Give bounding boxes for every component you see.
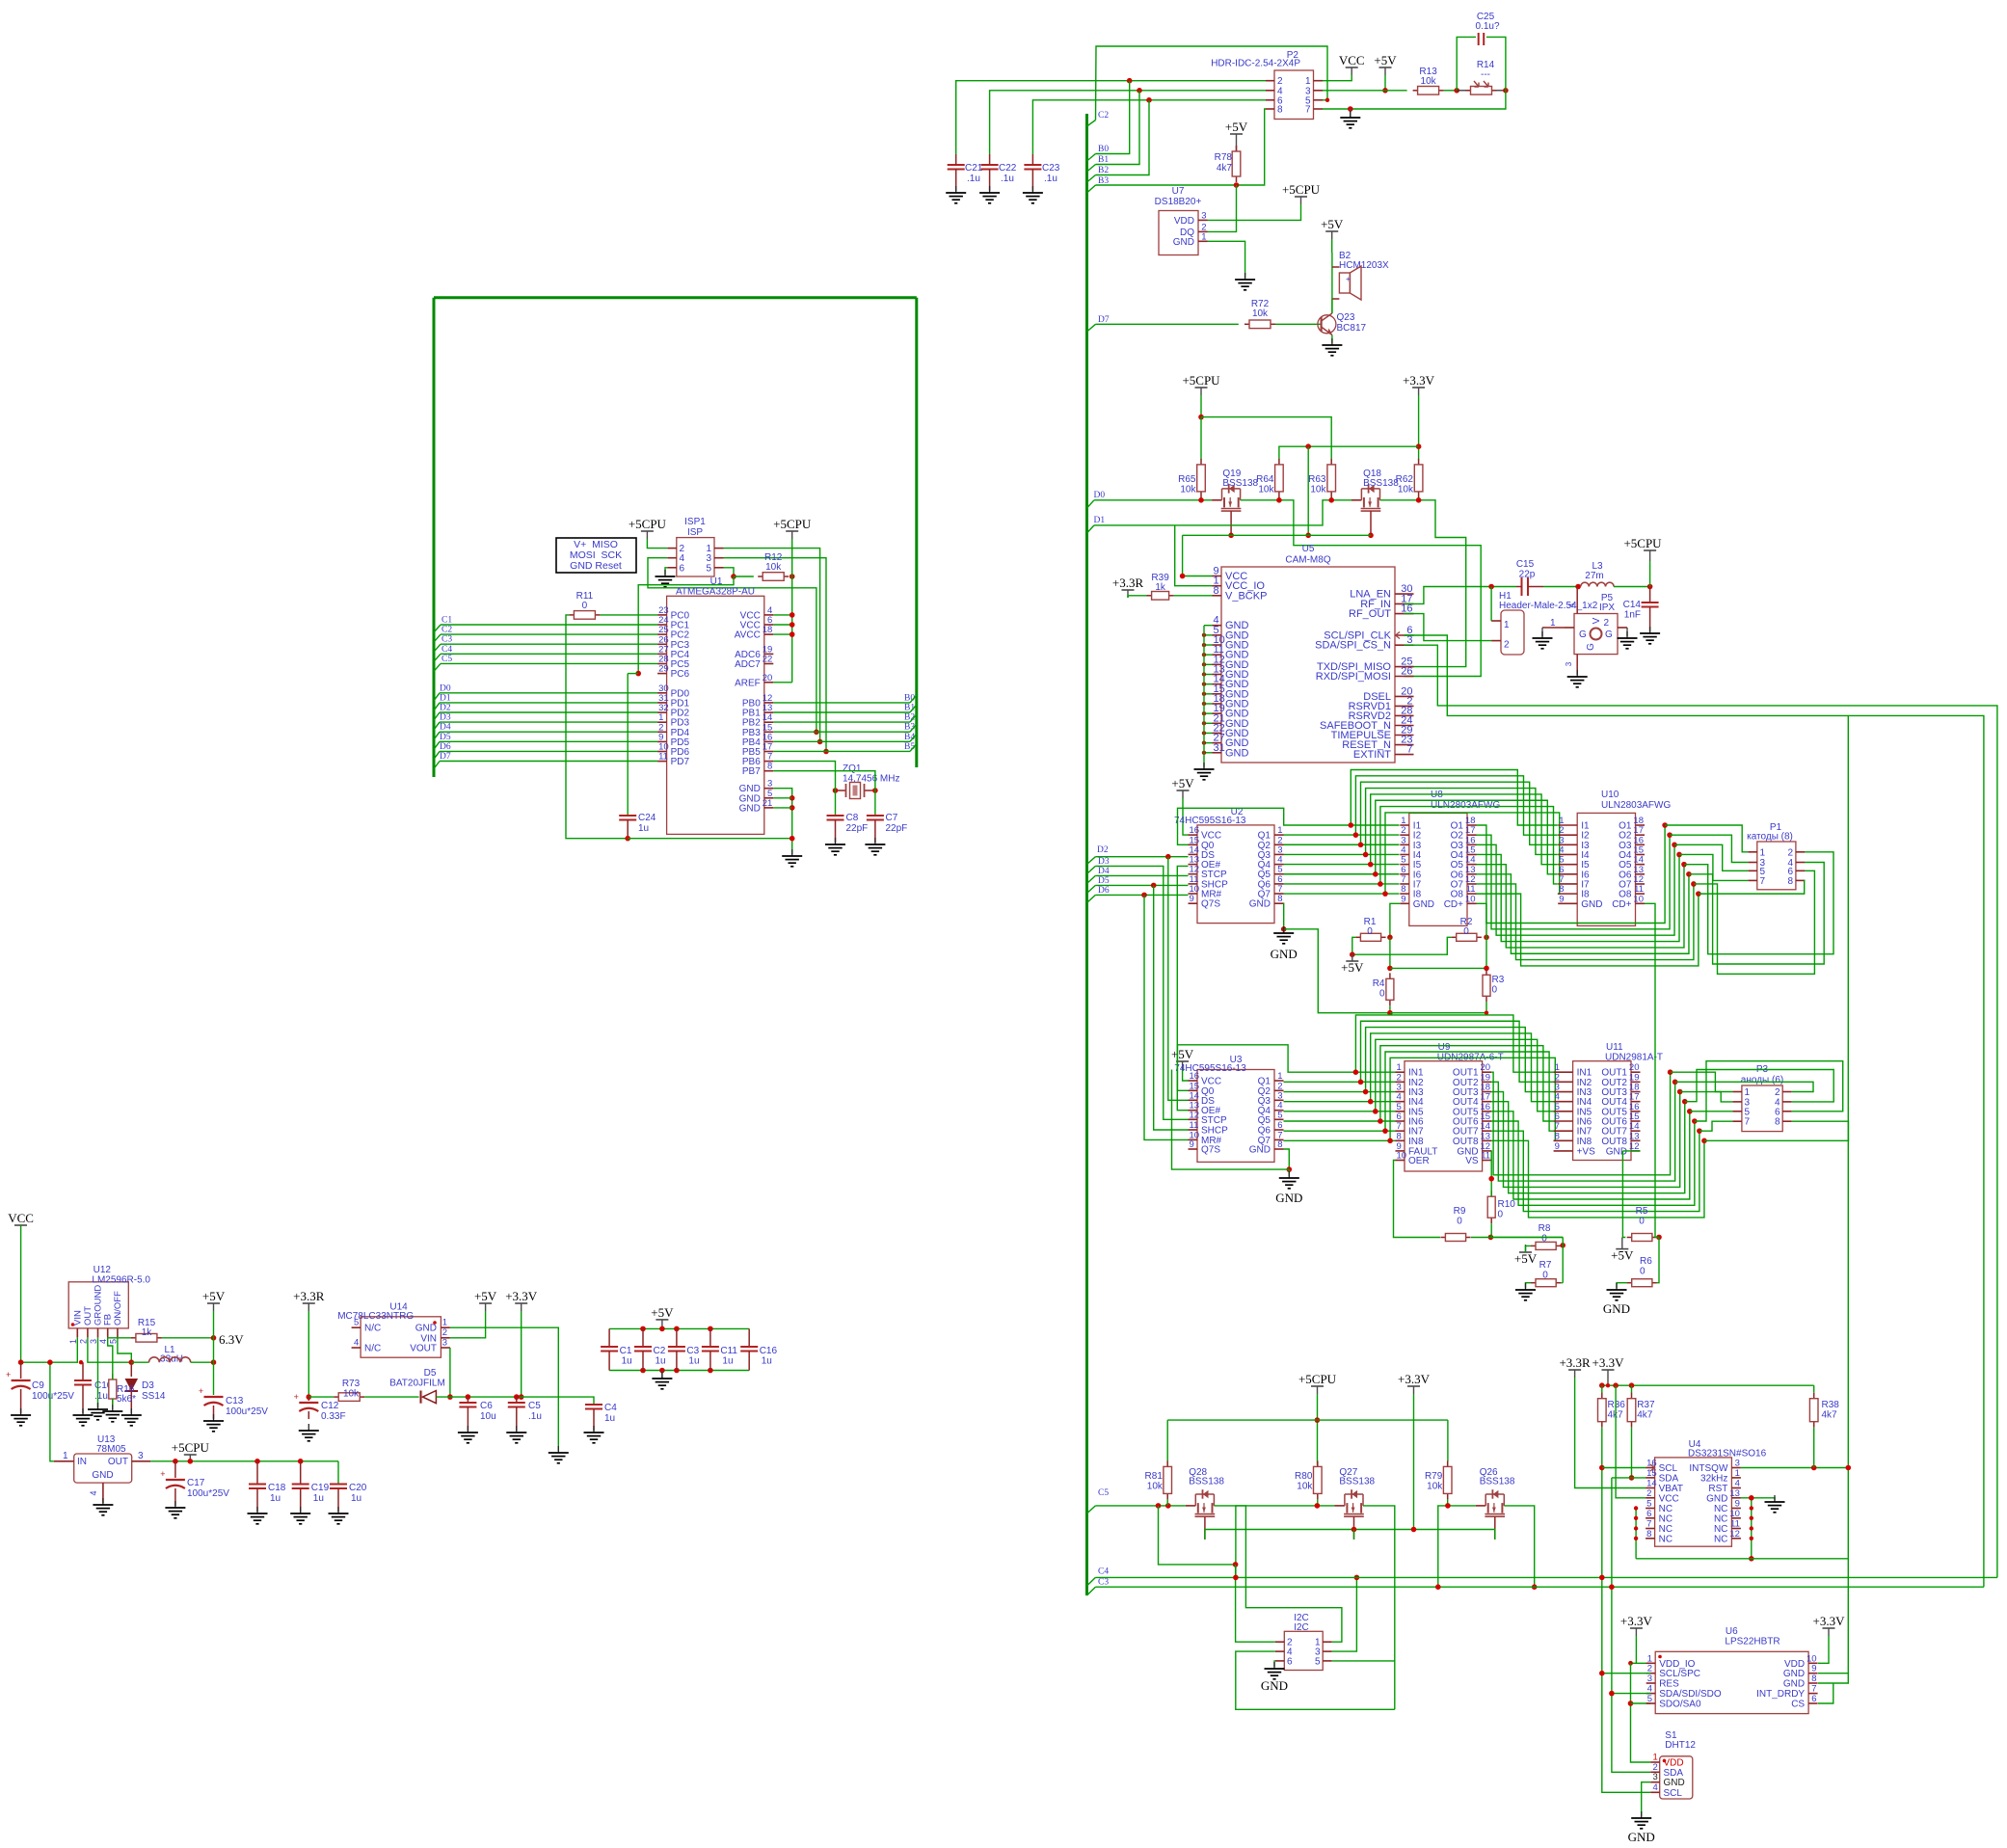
wire Q5 to U10 I6 (over the top) (1376, 800, 1558, 874)
wire R13 to C25 left leg (1444, 90, 1458, 92)
U5 pin 26 RXD/SPI_MOSI (1395, 676, 1414, 678)
svg-text:CD+: CD+ (1444, 899, 1463, 910)
svg-text:10k: 10k (1421, 76, 1437, 87)
wire U7 VDD to +5CPU (1208, 204, 1301, 220)
wire D5 to U2 SHCP and down to U3 (1095, 884, 1188, 886)
U4 NC tie right (1751, 1498, 1753, 1559)
wire C1 to U1 PC1 (441, 624, 657, 626)
ground below C17 (174, 1501, 176, 1508)
U10 pin 17 O2 (1636, 834, 1646, 836)
svg-text:2: 2 (78, 1339, 88, 1344)
bus (MCU block loop: right vertical) (915, 298, 918, 767)
svg-text:U6: U6 (1726, 1626, 1738, 1637)
U2 pin 3 Q3 (1274, 853, 1284, 855)
wire to U11 IN2 (over the top) (1361, 1021, 1554, 1082)
svg-text:CS: CS (1791, 1700, 1805, 1710)
wire U9 OUT1 tie to U11 OUT1 (1491, 1072, 1671, 1175)
svg-text:U5: U5 (1302, 544, 1315, 554)
wire B1 drop (1096, 91, 1140, 165)
U10 pin 8 I8 (1558, 893, 1577, 895)
svg-text:N/C: N/C (364, 1344, 381, 1354)
U10 pin 9 GND (1558, 902, 1577, 904)
wire I2C pin3 to C4 row (1332, 1577, 1357, 1651)
svg-text:6: 6 (1287, 1656, 1293, 1667)
capacitor C19 1u (300, 1461, 302, 1485)
U3 pin 13 OE# (1189, 1110, 1198, 1111)
svg-text:C7: C7 (886, 813, 898, 823)
svg-text:VDD: VDD (1174, 216, 1194, 227)
junction C14 node (1647, 584, 1653, 590)
bus (MCU data/control bus, right vertical) (1085, 114, 1088, 1595)
svg-text:GND: GND (1603, 1301, 1630, 1316)
svg-text:3: 3 (1647, 1674, 1652, 1684)
U5 pin 2 RSRVD1 (1395, 705, 1414, 707)
S1 pin 3 GND (1650, 1781, 1660, 1783)
wire PB4 to B4 (773, 740, 910, 742)
svg-text:6: 6 (680, 563, 685, 574)
wire B2 drop (1096, 100, 1150, 175)
svg-text:10: 10 (1465, 894, 1476, 904)
svg-text:6: 6 (1277, 1120, 1282, 1131)
U14 pin 3 VOUT (441, 1347, 450, 1349)
transistor Q23 BC817 (NPN) (1320, 317, 1322, 332)
U10 pin 15 O4 (1636, 853, 1646, 855)
svg-text:8: 8 (1277, 894, 1282, 904)
junction U9 IN5 (1373, 1109, 1378, 1114)
svg-text:OUT: OUT (83, 1306, 94, 1326)
svg-text:+: + (1346, 275, 1351, 283)
svg-text:1: 1 (68, 1339, 78, 1344)
svg-text:5: 5 (1647, 1694, 1652, 1704)
svg-text:4: 4 (1567, 603, 1576, 607)
svg-text:BSS138: BSS138 (1339, 1477, 1375, 1487)
wire R11 to PC0 (600, 614, 657, 616)
IC U11 UDN2981A-T (1573, 1061, 1631, 1161)
svg-text:+5CPU: +5CPU (172, 1440, 210, 1455)
U3 pin 15 Q0 (1189, 1089, 1198, 1091)
svg-text:+5V: +5V (1225, 120, 1248, 134)
junction B1 tap on pin4 row (1137, 88, 1142, 94)
svg-text:C21: C21 (965, 163, 983, 174)
svg-text:D3: D3 (440, 713, 451, 723)
wire R12 left to ISP pin5 node (734, 576, 754, 577)
wire U12 ON/OFF to ground (118, 1337, 131, 1362)
svg-text:26: 26 (1401, 666, 1412, 678)
wire U10 CD+ down to R5 right (1645, 903, 1659, 1237)
U1 pin 9 PD5 (657, 740, 667, 742)
U5 pin 20 DSEL (1395, 695, 1414, 697)
U11 pin 17 OUT4 (1631, 1101, 1641, 1103)
wire NC rail corner down to U6 GND pins (1818, 1559, 1848, 1674)
resistor R81 10k (1166, 1460, 1168, 1466)
vertical right run (INTSQW column) (1847, 715, 1849, 1558)
svg-text:GND Reset: GND Reset (570, 560, 622, 572)
svg-text:C5: C5 (1098, 1488, 1109, 1498)
wire +3.3V down to 3.3V rail (521, 1311, 522, 1397)
U9 pin 6 IN6 (1396, 1120, 1405, 1122)
P1 pin 1 (1748, 851, 1757, 853)
U7 pin 3 VDD (1198, 219, 1208, 221)
U5 pin 9 VCC (1213, 576, 1222, 577)
svg-text:LM2596R-5.0: LM2596R-5.0 (92, 1275, 150, 1286)
svg-text:14: 14 (1190, 1090, 1200, 1101)
svg-text:D2: D2 (1097, 845, 1109, 855)
svg-text:10: 10 (1729, 1509, 1740, 1519)
wire S1 GND to ground (1642, 1782, 1651, 1816)
header I2C (1284, 1631, 1323, 1670)
wire R1 left to +5V rail (1352, 937, 1452, 954)
wire +3.3V down to gate rail (1413, 1394, 1415, 1530)
svg-text:IN8: IN8 (1408, 1137, 1424, 1147)
junction +5V on pin3 row (1382, 88, 1388, 94)
wire to U11 IN8 (over the top) (1390, 1058, 1555, 1140)
U3 pin 9 Q7S (1189, 1148, 1198, 1150)
junction U11 OUT1 (1668, 1069, 1673, 1075)
wire P2 pin4 row to C22 (990, 91, 1266, 154)
svg-text:13: 13 (1481, 1131, 1491, 1141)
P5 pin 3 to ground (1576, 655, 1578, 675)
wire VCC pin6 to +5CPU drop (773, 624, 791, 626)
svg-text:10k: 10k (765, 562, 782, 573)
U3 pin 7 Q7 (1274, 1138, 1284, 1140)
svg-text:R81: R81 (1145, 1471, 1164, 1482)
wire PB6 to crystal left (773, 762, 835, 790)
svg-text:7: 7 (1760, 876, 1766, 887)
svg-text:12: 12 (1729, 1529, 1740, 1540)
wire C3 row (long) (1095, 1586, 1983, 1588)
wire D1 to U1 PD1 (440, 702, 657, 704)
resistor R79 10k (1447, 1460, 1449, 1466)
wire +3.3R to U4 VBAT (1575, 1378, 1646, 1488)
P1 pin 3 (1748, 862, 1757, 864)
wire +5CPU to R65 top (1200, 417, 1202, 460)
U10 pin 11 O8 (1636, 893, 1646, 895)
resistor R65 10k (1200, 459, 1202, 465)
svg-text:C24: C24 (638, 813, 656, 823)
svg-text:BSS138: BSS138 (1363, 478, 1399, 489)
svg-text:+: + (6, 1370, 11, 1379)
svg-text:22p: 22p (1519, 570, 1536, 580)
svg-text:3: 3 (138, 1451, 144, 1461)
U10 pin 3 I3 (1558, 844, 1577, 845)
U3 pin 12 STCP (1189, 1118, 1198, 1120)
wire U10 O4 to P1 pin7 (1679, 854, 1748, 880)
svg-text:+5V: +5V (1341, 960, 1364, 975)
capacitor C22 .1u (981, 164, 999, 166)
wire R4 top rail (1389, 937, 1391, 968)
U10 pin 18 O1 (1636, 824, 1646, 826)
svg-text:HDR-IDC-2.54-2X4P: HDR-IDC-2.54-2X4P (1211, 59, 1300, 69)
junction U9 IN1 (1353, 1069, 1359, 1075)
U11 pin 19 OUT2 (1631, 1081, 1641, 1083)
U5 pin 3 SDA/SPI_CS_N (1395, 644, 1414, 646)
P1 pin 5 (1748, 870, 1757, 871)
svg-text:GND: GND (415, 1324, 437, 1334)
wire C2 net: bus entry up to top run, across to P2 pin5 (1096, 46, 1328, 121)
svg-text:C5: C5 (442, 655, 452, 664)
svg-text:1nF: 1nF (1624, 610, 1641, 621)
U9 pin 2 IN2 (1396, 1081, 1405, 1083)
capacitor C13 100u*25V (204, 1396, 224, 1398)
U2 pin 6 Q6 (1274, 883, 1284, 885)
junction R2 right / CD+ drop (1484, 935, 1489, 941)
capacitor C4 1u (3.3V rail) (591, 1397, 594, 1405)
svg-text:1: 1 (1735, 1468, 1740, 1479)
resistor R7 0 (1531, 1282, 1536, 1284)
junction U8 I4 (1363, 852, 1369, 858)
svg-text:SCL: SCL (1664, 1788, 1683, 1799)
svg-text:VOUT: VOUT (410, 1344, 437, 1354)
junction MOSI/PB3 (814, 730, 819, 736)
wire +5CPU output rail (150, 1460, 338, 1462)
junction U8 I7 (1378, 881, 1383, 887)
svg-text:7: 7 (1811, 1684, 1816, 1695)
junction U9 IN3 (1363, 1089, 1369, 1095)
svg-text:D5: D5 (424, 1368, 437, 1379)
IC U9 UDN2987A-6-T (1405, 1061, 1483, 1171)
junction U11 OUT4 (1682, 1099, 1688, 1105)
svg-text:D6: D6 (440, 742, 451, 752)
P3 pin 1 (1732, 1091, 1742, 1093)
svg-text:R5: R5 (1636, 1206, 1648, 1217)
wire U4 SDA row to SDA column (1612, 1477, 1646, 1479)
svg-text:CAM-M8Q: CAM-M8Q (1285, 555, 1330, 566)
U9 pin 14 OUT7 (1483, 1130, 1492, 1132)
junction U10 O5 (1681, 862, 1687, 868)
wire Q1 to U10 I2 (over the top) (1355, 776, 1557, 835)
wire U3 GND to ground (1284, 1149, 1290, 1169)
U8 pin 3 I3 (1400, 844, 1409, 845)
wire AVCC to +5CPU drop (773, 633, 791, 635)
IC S1 DHT12 (1660, 1756, 1693, 1799)
svg-text:GND: GND (1606, 1146, 1627, 1157)
IC U7 DS18B20+ (1159, 211, 1198, 255)
U8 pin 4 I4 (1400, 853, 1409, 855)
ground at ISP1 pin6 (665, 568, 667, 575)
capacitor C8 22pF (835, 790, 837, 816)
U1 pin 31 PD1 (657, 702, 667, 704)
U3 pin 6 Q6 (1274, 1129, 1284, 1131)
U4 NC tie left (1635, 1509, 1637, 1559)
U13 pin 1 IN (54, 1460, 74, 1462)
transistor Q19 BSS138 (1212, 499, 1221, 501)
photoresistor R14 (1466, 90, 1471, 92)
U1 pin 30 PD0 (657, 692, 667, 694)
wire U11 OUT7 to P3 pin7 (1699, 1121, 1733, 1131)
svg-text:1: 1 (1201, 231, 1206, 242)
wire P2 pin3 row to R13 (1323, 90, 1407, 92)
svg-text:16: 16 (1646, 1459, 1657, 1469)
I2C pin 6 (1275, 1660, 1285, 1662)
U1 pin 28 PC5 (657, 663, 667, 665)
wire +5V to U3 VCC (1183, 1069, 1189, 1081)
junction R12 right at +5CPU drop (789, 574, 795, 579)
svg-text:74HC595S16-13: 74HC595S16-13 (1174, 816, 1246, 826)
wire R7 right to R8 rail (1561, 1282, 1563, 1284)
svg-text:C15: C15 (1516, 559, 1535, 570)
svg-text:C23: C23 (1042, 163, 1060, 174)
svg-text:5: 5 (354, 1318, 359, 1328)
IC U10 ULN2803AFWG (1577, 813, 1635, 925)
U6 pin 8 GND (1808, 1682, 1818, 1684)
IC U1 ATMEGA328P-AU (667, 596, 764, 834)
svg-text:V: V (1592, 617, 1602, 624)
svg-text:6.3V: 6.3V (219, 1332, 244, 1347)
wire R36 bottom to SCL column (1602, 1428, 1650, 1793)
wire ISP1 pin1 MISO to PB4 (724, 549, 820, 742)
wire ISP1 pin5 to R12 node (724, 568, 735, 576)
wire R38 bottom (1813, 1428, 1815, 1468)
svg-text:10k: 10k (1398, 485, 1414, 495)
svg-text:22pF: 22pF (886, 823, 908, 834)
ground at U4 GND (1774, 1495, 1776, 1502)
wire U9 OUT5 tie to U11 OUT5 (1491, 1111, 1690, 1199)
wires U2 Q1-Q7 to U8 I2-I8 (1284, 834, 1400, 836)
U1 pin 7 PB6 (764, 761, 774, 763)
wires gate stubs to rail (1353, 1530, 1355, 1540)
wire +3.3V to U6 VDD (1818, 1636, 1829, 1663)
svg-text:1u: 1u (351, 1493, 361, 1504)
wire U7 DQ to B3/R78 node (1208, 185, 1237, 231)
svg-text:4k7: 4k7 (1637, 1410, 1653, 1421)
wire U8 O3 tie to U10 O3 (1477, 844, 1675, 935)
resistor R12 10k (758, 576, 763, 577)
junction R1 right (1387, 935, 1393, 941)
ISP1 pin 5 (714, 567, 724, 569)
resistor R13 10k (1413, 90, 1418, 92)
svg-text:C4: C4 (604, 1403, 617, 1413)
U5 pin 10 GND (1213, 644, 1222, 646)
svg-text:8: 8 (1775, 1117, 1780, 1128)
svg-text:.1u: .1u (94, 1391, 108, 1402)
IC U4 DS3231SN#SO16 (1655, 1458, 1732, 1546)
U13 pin 3 OUT (132, 1460, 151, 1462)
U5 pin 6 SCL/SPI_CLK (1395, 634, 1414, 636)
svg-text:1u: 1u (622, 1356, 632, 1367)
U12 pin 4 FB (107, 1328, 109, 1338)
wire R15 to 6.3V node (162, 1337, 214, 1339)
ground at R7 left (1526, 1283, 1532, 1288)
svg-text:BSS138: BSS138 (1222, 478, 1258, 489)
transistor Q27 BSS138 (1335, 1505, 1345, 1507)
U9 pin 10 OER (1396, 1160, 1405, 1162)
svg-text:B0: B0 (1098, 145, 1109, 154)
junction H1 pin1 tap (1488, 584, 1494, 590)
U1 pin 3 GND (764, 788, 774, 790)
wire U14 VOUT to 3.3V rail (449, 1348, 451, 1397)
wire +3.3R down to 3.3V rail (308, 1311, 309, 1397)
U2 pin 12 STCP (1189, 873, 1198, 875)
junction crystal left (833, 788, 839, 793)
svg-text:10k: 10k (1297, 1482, 1313, 1492)
svg-text:C5: C5 (528, 1401, 541, 1411)
svg-text:3: 3 (1653, 1772, 1658, 1782)
svg-text:100u*25V: 100u*25V (32, 1391, 74, 1402)
svg-text:+3.3V: +3.3V (1398, 1372, 1431, 1386)
wire U10 O6 to P1 pin4 (loop below) (1689, 863, 1824, 965)
svg-text:NC: NC (1714, 1534, 1727, 1544)
capacitor C24 1u (reset) (628, 673, 638, 675)
U14 pin 4 N/C (352, 1347, 361, 1349)
wire U2 Q0 loop over top to U8 I1 (1178, 808, 1400, 844)
wire ISP1 pin4 MOSI loop to PB3 (648, 558, 816, 733)
wire U10 O1 to P1 pin1 (1665, 825, 1748, 852)
svg-text:G: G (1586, 643, 1596, 651)
wire NC tie rail (1636, 1558, 1848, 1560)
wire D2 to U2 DS and down to U3 (1095, 856, 1188, 858)
wire H1 pin1 to RF_IN line (1490, 587, 1492, 622)
svg-text:0: 0 (1463, 926, 1469, 937)
svg-text:GND: GND (1783, 1679, 1805, 1690)
svg-text:RF_OUT: RF_OUT (1349, 608, 1391, 620)
wire U14 GND down (450, 1327, 558, 1451)
ground below U5 (1203, 763, 1205, 769)
ground below C21 (955, 186, 957, 193)
svg-text:IPX: IPX (1599, 603, 1615, 613)
svg-text:IN8: IN8 (1577, 1137, 1592, 1147)
resistor R11 0 (PC0 pulldown) (569, 614, 574, 616)
wire R16 bottom to ground (112, 1399, 114, 1409)
U9 pin 18 OUT3 (1483, 1091, 1492, 1093)
svg-text:G: G (1605, 629, 1613, 640)
IC U5 CAM-M8Q (1221, 567, 1395, 763)
cap bank bottom rail (609, 1370, 749, 1372)
U8 pin 18 O1 (1467, 824, 1477, 826)
P1 pin 7 (1748, 879, 1757, 881)
svg-text:3: 3 (1565, 661, 1573, 666)
svg-text:R10: R10 (1498, 1199, 1516, 1210)
U8 pin 16 O3 (1467, 844, 1477, 845)
svg-text:PD7: PD7 (671, 757, 690, 767)
wire Q23 emitter to ground (1331, 335, 1333, 344)
P3 pin 4 (1782, 1101, 1792, 1103)
svg-text:SHCP: SHCP (1201, 1126, 1228, 1137)
U9 pin 5 IN5 (1396, 1111, 1405, 1112)
U9 pin 7 IN7 (1396, 1130, 1405, 1132)
junction U8 I8 (1382, 891, 1388, 897)
U11 pin 15 OUT6 (1631, 1120, 1641, 1122)
svg-text:R9: R9 (1454, 1206, 1466, 1217)
wire U8 O7 tie to U10 O7 (1477, 884, 1694, 960)
svg-text:5k6*: 5k6* (117, 1394, 136, 1405)
svg-text:1k: 1k (142, 1327, 153, 1338)
svg-text:4: 4 (98, 1339, 108, 1344)
ground below U1 (791, 849, 793, 856)
svg-text:SDA: SDA (1659, 1473, 1679, 1484)
svg-text:R73: R73 (342, 1379, 361, 1389)
resistor R16 5k6* (FB divider) (112, 1374, 114, 1379)
capacitor C9 100u*25V (20, 1362, 22, 1379)
U5 pin 25 TXD/SPI_MISO (1395, 666, 1414, 668)
svg-text:10k: 10k (1310, 485, 1326, 495)
svg-text:+5V: +5V (474, 1289, 497, 1303)
svg-text:D5: D5 (440, 733, 451, 742)
svg-text:+5CPU: +5CPU (1623, 536, 1662, 550)
U3 pin 14 DS (1189, 1099, 1198, 1101)
wire U8 GND to R1 node (1390, 903, 1400, 937)
svg-text:GND: GND (1413, 899, 1434, 910)
resistor R63 10k (1330, 459, 1332, 465)
P2 pin 2 (1266, 80, 1274, 82)
U11 pin 4 IN4 (1554, 1101, 1573, 1103)
svg-text:+: + (294, 1392, 299, 1402)
wire +3.3V down to gate rail (1307, 446, 1309, 535)
U5 pin 27 GND (1213, 742, 1222, 744)
ground below C10 (82, 1408, 84, 1415)
svg-text:NC: NC (1714, 1513, 1727, 1524)
U5 pin 17 RF_IN (1395, 603, 1414, 604)
U4 pin 13 GND (1731, 1497, 1741, 1499)
